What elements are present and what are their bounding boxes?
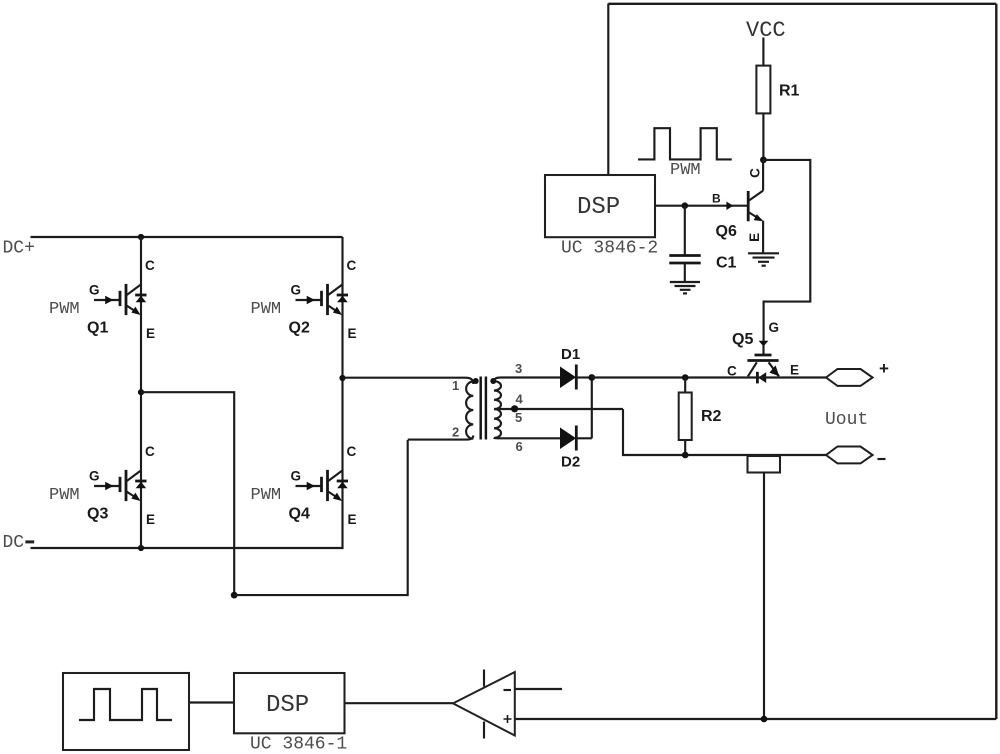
transistor Q3 designator (87, 506, 108, 523)
transistor Q1 gate bar (119, 291, 122, 306)
svg-text:VCC: VCC (746, 18, 786, 43)
svg-text:C1: C1 (716, 255, 737, 272)
transistor Q4 label E (348, 512, 357, 527)
transistor Q2 label C (347, 258, 357, 273)
transformer pin label 4 (516, 392, 524, 407)
wire sensor to feedback (763, 473, 765, 720)
transistor Q4 gate arrow (307, 482, 315, 491)
wire right midpoint to primary top (343, 377, 467, 379)
node R2 top (682, 374, 689, 381)
svg-text:Uout: Uout (825, 410, 868, 430)
svg-text:Q5: Q5 (732, 331, 753, 348)
transformer T1 primary top lead (466, 378, 473, 384)
wire node to capacitor C1 (684, 206, 686, 255)
transformer T1 secondary polarity dot (490, 378, 496, 384)
transistor Q5 label C (727, 364, 737, 379)
terminal positive output (826, 369, 873, 386)
transistor Q3 emitter lead with arrow (127, 492, 141, 501)
block DSP (UC 3846-1) (234, 673, 345, 733)
transistor Q6 base bar (747, 191, 750, 221)
PWM waveform (gate drive) (638, 128, 732, 159)
svg-text:2: 2 (452, 425, 459, 440)
svg-text:G: G (769, 320, 780, 335)
wire feedback loop top segment (608, 3, 996, 5)
transistor Q1 PWM input label (49, 300, 80, 319)
transistor Q6 emitter lead with arrow (748, 212, 763, 221)
transformer pin label 2 (452, 425, 459, 440)
svg-text:E: E (146, 512, 155, 527)
transistor Q4 designator (289, 506, 310, 523)
transistor Q3 gate bar (119, 477, 122, 492)
transistor Q3 label C (145, 444, 155, 459)
transformer pin label 3 (515, 361, 522, 376)
svg-text:C: C (347, 258, 357, 273)
svg-text:C: C (748, 168, 763, 178)
transistor Q2 gate wire (296, 299, 321, 301)
transformer T1 secondary winding upper (pins 3-4) (494, 381, 501, 409)
transistor Q1 label C (145, 258, 155, 273)
op-amp inverting input line (515, 688, 562, 690)
svg-text:Q3: Q3 (87, 506, 108, 523)
block DSP (UC 3846-2) (545, 175, 655, 237)
ground at Q6 emitter (748, 253, 779, 265)
op-amp power pin bottom (483, 722, 485, 739)
svg-text:DSP: DSP (266, 692, 309, 719)
PWM generator block (63, 673, 189, 750)
capacitor C1 plates (669, 256, 700, 264)
node DC+ left leg (138, 234, 144, 240)
svg-text:R1: R1 (779, 83, 800, 100)
node R2 bottom (682, 452, 689, 459)
transistor Q4 antiparallel diode (337, 481, 348, 488)
svg-text:PWM: PWM (251, 486, 282, 505)
transistor Q5 designator (732, 331, 753, 348)
transistor Q2 label E (348, 326, 357, 341)
diode D1 (560, 365, 592, 390)
transistor Q5 antiparallel diode (757, 372, 766, 384)
transistor Q2 designator (289, 320, 310, 337)
transformer T1 core (481, 377, 486, 440)
transistor Q5 emitter lead with arrow (769, 362, 780, 376)
wire rectifier output to Q5 collector (592, 376, 748, 378)
wire centre tap return (negative rail) (623, 409, 826, 455)
transistor Q5 gate arrow (759, 341, 769, 355)
transistor Q4 emitter lead with arrow (328, 492, 342, 501)
wire PWM box to DSP-1 (189, 701, 234, 703)
label plus (879, 359, 889, 378)
transformer T1 secondary winding lower (pins 5-6) (494, 409, 501, 438)
wire right bridge leg upper (Q2) (341, 237, 343, 378)
capacitor C1 designator (716, 255, 737, 272)
svg-text:PWM: PWM (251, 300, 282, 319)
svg-text:PWM: PWM (49, 486, 80, 505)
transistor Q3 body bar (125, 470, 128, 501)
transistor Q5 body bar (747, 359, 778, 362)
svg-text:E: E (790, 363, 799, 378)
transistor Q1 gate arrow (105, 296, 113, 305)
transistor Q1 gate wire (94, 299, 119, 301)
transistor Q4 gate wire (296, 485, 321, 487)
transistor Q6 label E (rotated) (747, 233, 762, 242)
transistor Q4 body bar (326, 470, 329, 501)
svg-text:C: C (347, 444, 357, 459)
transistor Q3 label G (89, 469, 100, 484)
transistor Q2 antiparallel diode (337, 295, 348, 302)
transistor Q2 body bar (326, 284, 329, 315)
svg-text:R2: R2 (701, 408, 722, 425)
transistor Q6 label B (712, 192, 721, 206)
transistor Q2 PWM input label (251, 300, 282, 319)
svg-text:5: 5 (515, 410, 522, 425)
svg-text:4: 4 (516, 392, 524, 407)
net label Uout (825, 410, 868, 430)
wire op-amp output to DSP-1 (345, 702, 454, 704)
svg-text:G: G (89, 469, 100, 484)
wire lower run to transformer primary bottom (234, 440, 408, 595)
current sensor block (748, 456, 781, 473)
svg-text:PWM: PWM (670, 161, 701, 180)
transformer T1 primary bottom lead (408, 436, 474, 440)
wire right bridge leg lower (Q4) (341, 378, 343, 505)
terminal negative output (826, 447, 873, 464)
node right leg midpoint (339, 375, 345, 381)
wire DC+ rail (31, 236, 343, 238)
transistor Q2 collector lead (328, 284, 342, 295)
resistor R1 (756, 66, 770, 114)
transformer T1 primary winding (466, 382, 473, 439)
transformer T1 secondary top lead (pin 3) to D1 (494, 378, 560, 382)
svg-text:B: B (712, 192, 721, 206)
net label DC- (3, 533, 35, 553)
transistor Q3 label E (146, 512, 155, 527)
transformer pin label 1 (452, 378, 459, 393)
svg-text:PWM: PWM (49, 300, 80, 319)
transistor Q1 body bar (125, 284, 128, 315)
block DSP-2 part number UC 3846-2 (561, 239, 658, 259)
svg-text:G: G (291, 469, 302, 484)
wire DC- rail (31, 505, 343, 548)
resistor R2 designator (701, 408, 722, 425)
svg-text:G: G (89, 283, 100, 298)
node base/C1 junction (682, 202, 689, 209)
svg-text:Q1: Q1 (87, 320, 108, 337)
wire VCC to R1 (762, 38, 764, 66)
transformer T1 secondary bottom lead (pin 6) to D2 (494, 437, 560, 440)
transformer T1 centre tap lead (pins 4/5) (494, 408, 623, 410)
transistor Q2 gate bar (320, 291, 323, 306)
svg-text:G: G (291, 283, 302, 298)
wire R2 bottom lead (684, 440, 686, 455)
transistor Q1 designator (87, 320, 108, 337)
node centre tap (511, 405, 518, 412)
svg-text:UC 3846-1: UC 3846-1 (250, 735, 347, 754)
transistor Q3 gate wire (94, 485, 119, 487)
transistor Q5 gate bar (755, 354, 772, 357)
node feedback junction (761, 716, 768, 723)
svg-text:E: E (747, 233, 762, 242)
transistor Q3 gate arrow (105, 482, 113, 491)
op-amp power pin top (483, 670, 485, 687)
transistor Q4 PWM input label (251, 486, 282, 505)
transformer pin label 5 (515, 410, 522, 425)
ground below C1 (670, 282, 700, 293)
net label VCC (746, 18, 786, 43)
wire top border to DSP UC3846-2 (607, 4, 609, 176)
node DC- left leg (138, 545, 144, 551)
transistor Q3 antiparallel diode (135, 481, 146, 488)
svg-text:C: C (145, 258, 155, 273)
svg-text:E: E (348, 512, 357, 527)
wire feedback loop right segment (995, 4, 997, 719)
svg-text:C: C (145, 444, 155, 459)
wire D2 cathode up to D1 cathode (591, 378, 593, 439)
transistor Q2 emitter lead with arrow (328, 306, 342, 315)
wire R2 top lead (684, 378, 686, 393)
svg-text:D2: D2 (561, 454, 580, 471)
svg-text:C: C (727, 364, 737, 379)
diode D2 (560, 426, 592, 451)
transistor Q1 emitter lead with arrow (127, 306, 141, 315)
transistor Q6 collector lead (748, 191, 763, 201)
wire node to Q5 gate (right jog) (763, 160, 810, 341)
transistor Q4 gate bar (320, 477, 323, 492)
svg-text:DC: DC (3, 533, 25, 553)
transistor Q6 designator (716, 223, 737, 240)
wire Q6 emitter to ground (762, 221, 764, 253)
transistor Q5 label G (769, 320, 780, 335)
transistor Q1 collector lead (127, 284, 141, 295)
label minus (878, 458, 886, 460)
svg-text:Q2: Q2 (289, 320, 310, 337)
transistor Q3 collector lead (127, 470, 141, 481)
PWM waveform label (670, 161, 701, 180)
diode D2 designator (561, 454, 580, 471)
transformer T1 primary polarity dot (473, 378, 479, 384)
wire DSP-2 output to Q6 base (655, 205, 748, 207)
resistor R2 (679, 393, 692, 441)
svg-text:1: 1 (452, 378, 459, 393)
svg-text:3: 3 (515, 361, 522, 376)
svg-text:E: E (146, 326, 155, 341)
transistor Q1 label G (89, 283, 100, 298)
diode D1 designator (561, 346, 580, 363)
transistor Q4 label G (291, 469, 302, 484)
transistor Q3 PWM input label (49, 486, 80, 505)
transistor Q5 collector lead (748, 362, 757, 376)
resistor R1 value label (779, 83, 800, 100)
wire C1 to ground (684, 264, 686, 282)
transistor Q2 gate arrow (307, 296, 315, 305)
transistor Q5 label E (790, 363, 799, 378)
node left leg midpoint (138, 389, 144, 395)
PWM generator waveform (79, 689, 172, 720)
node corner junction lower (231, 592, 238, 599)
wire R1 to collector node (762, 113, 764, 160)
wire left bridge leg (Q1/Q3) (140, 237, 142, 548)
transistor Q4 collector lead (328, 470, 342, 481)
svg-text:D1: D1 (561, 346, 580, 363)
transistor Q1 antiparallel diode (135, 295, 146, 302)
Q6 base signal arrow (726, 202, 733, 211)
net label DC+ (3, 239, 35, 259)
wire Q6 collector up to node (762, 160, 764, 191)
node rectifier output (588, 374, 595, 381)
transistor Q6 label C (rotated) (748, 168, 763, 178)
svg-text:UC 3846-2: UC 3846-2 (561, 239, 658, 259)
op-amp comparator triangle (453, 672, 515, 736)
transistor Q4 label C (347, 444, 357, 459)
transistor Q2 label G (291, 283, 302, 298)
svg-text:6: 6 (516, 439, 523, 454)
block DSP-1 text (266, 692, 309, 719)
svg-text:Q6: Q6 (716, 223, 737, 240)
wire Q5 channel (C to E) (748, 376, 826, 378)
svg-text:DC+: DC+ (3, 239, 35, 259)
block DSP-1 part number UC 3846-1 (250, 735, 347, 754)
wire feedback bottom segment to op-amp + input (515, 718, 996, 720)
transistor Q1 label E (146, 326, 155, 341)
wire left midpoint to primary bottom (down and around) (141, 392, 234, 595)
op-amp minus sign (504, 689, 512, 691)
svg-text:Q4: Q4 (289, 506, 310, 523)
block DSP-2 text (577, 194, 620, 221)
node collector of Q6 (760, 157, 767, 164)
svg-text:DSP: DSP (577, 194, 620, 221)
svg-text:E: E (348, 326, 357, 341)
op-amp plus sign (504, 715, 512, 723)
svg-text:+: + (879, 359, 889, 378)
transformer pin label 6 (516, 439, 523, 454)
